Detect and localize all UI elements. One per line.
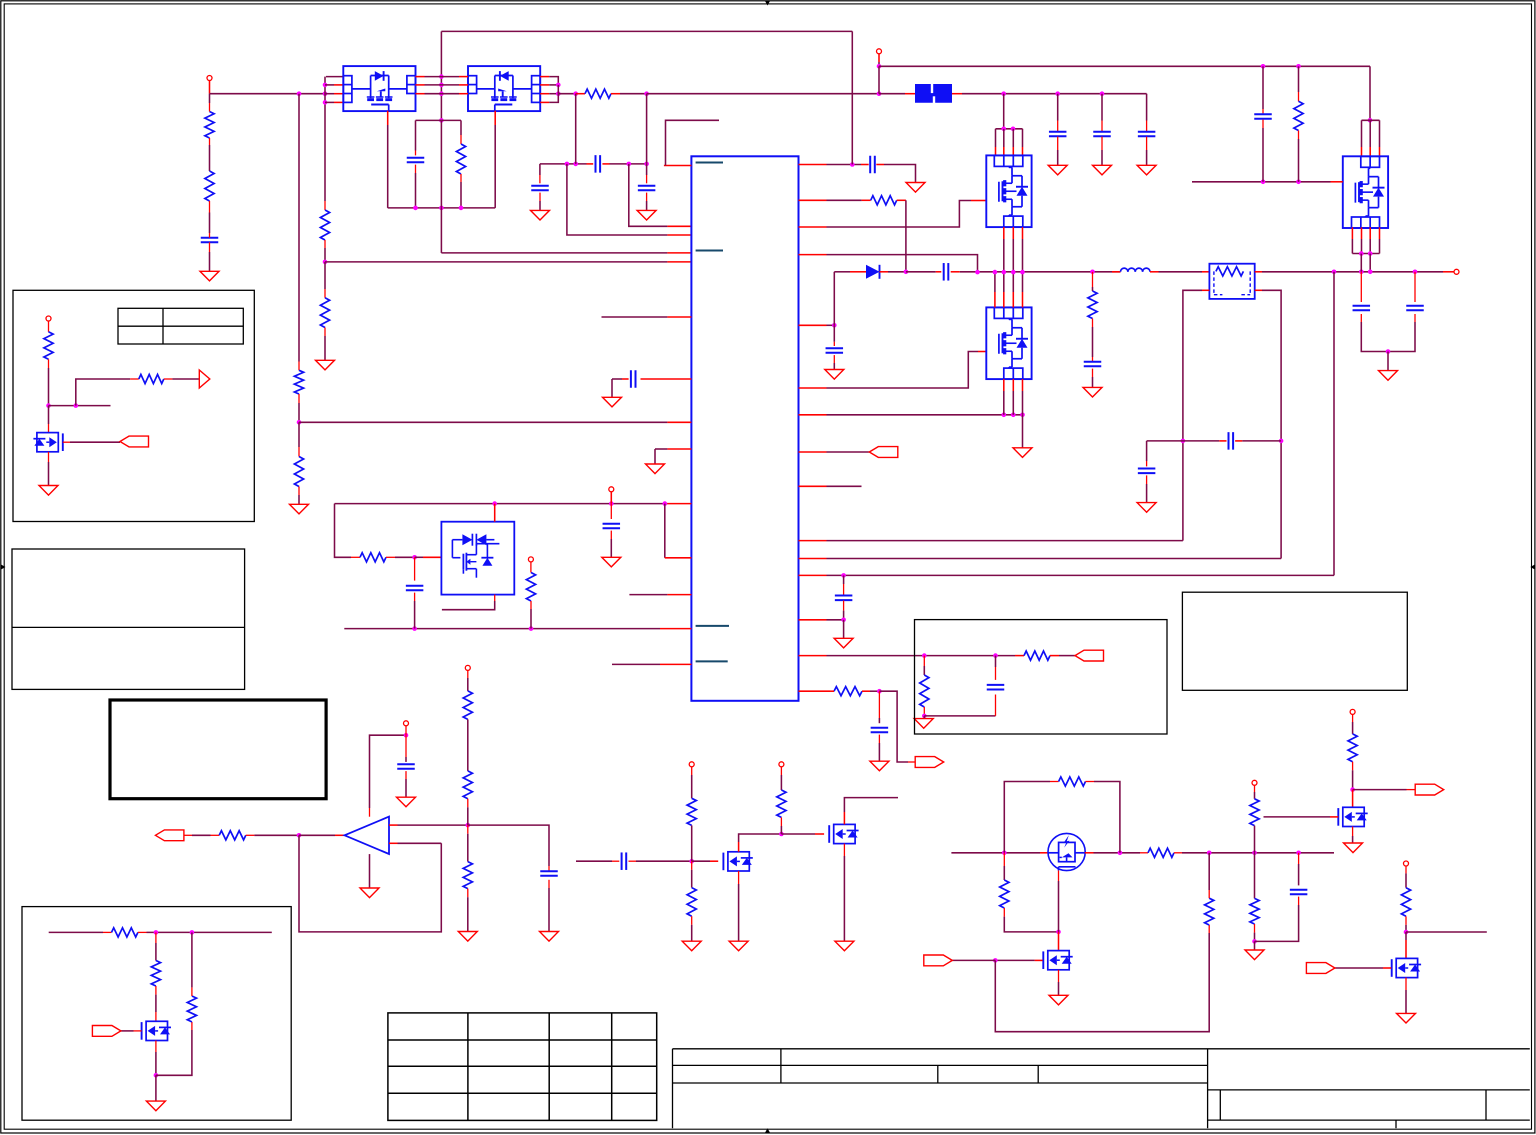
capacitor C10: [826, 348, 844, 353]
wire: [209, 81, 211, 104]
wire: [441, 208, 691, 253]
resistor R19: [463, 771, 472, 799]
junction: [190, 930, 195, 935]
wire: [415, 165, 417, 208]
wire long: [299, 421, 691, 423]
junction: [1404, 930, 1409, 935]
junction: [556, 91, 561, 96]
junction: [412, 555, 417, 560]
resistor R34: [112, 928, 138, 937]
junction: [297, 420, 302, 425]
wire pin: [1022, 379, 1024, 415]
diode D1: [866, 265, 880, 279]
wire: [298, 394, 300, 422]
wire: [1146, 94, 1148, 132]
ground: [200, 271, 219, 281]
wire pin: [1369, 120, 1371, 156]
wire: [879, 691, 915, 762]
capacitor C19: [1229, 432, 1234, 450]
wire stub: [1406, 931, 1487, 933]
note box: [1182, 592, 1407, 690]
wire: [951, 852, 1048, 854]
border tick left: [1, 565, 6, 570]
wire: [1235, 440, 1281, 442]
note box thick: [110, 700, 326, 799]
ground: [602, 557, 621, 567]
wire: [558, 93, 575, 95]
title block: [673, 1049, 1530, 1128]
wire: [1405, 866, 1407, 888]
capacitor C12: [987, 685, 1005, 690]
wire: [1174, 852, 1334, 854]
junction: [154, 930, 159, 935]
wire: [49, 405, 111, 407]
capacitor C24: [1290, 890, 1308, 895]
IC pin indicator: [696, 250, 723, 252]
transistor Q2 dual-FET package: [468, 66, 540, 111]
wire: [1333, 272, 1335, 576]
border tick bottom: [765, 1128, 770, 1133]
resistor R3: [294, 370, 303, 394]
ground: [397, 797, 416, 807]
wire: [691, 916, 693, 941]
transistor Q13: [33, 433, 62, 452]
capacitor C11: [835, 596, 853, 601]
wire pin: [641, 378, 692, 380]
wire: [1147, 440, 1227, 442]
wire: [995, 695, 997, 716]
wire: [1057, 94, 1059, 132]
wire feedback: [299, 835, 441, 932]
wire pin: [1022, 227, 1024, 272]
wire: [324, 262, 326, 298]
wire: [996, 128, 1023, 130]
wire: [210, 93, 326, 95]
wire long: [344, 628, 691, 630]
junction: [1359, 270, 1364, 275]
junction: [1279, 439, 1284, 444]
wire pin: [494, 504, 496, 522]
junction: [556, 83, 561, 88]
junction: [877, 64, 882, 69]
wire: [460, 120, 462, 144]
wire: [1146, 137, 1148, 166]
wire pin: [1012, 379, 1014, 415]
wire: [646, 193, 648, 211]
node VIN terminal circle: [877, 49, 882, 54]
wire pin: [799, 352, 987, 389]
junction: [904, 270, 909, 275]
resistor R4: [294, 457, 303, 487]
ground: [146, 1101, 165, 1111]
transistor Q4 package: [986, 155, 1031, 227]
node terminal circle: [46, 316, 51, 321]
transistor Q14: [142, 1021, 171, 1040]
wire: [1057, 137, 1059, 166]
IC pin indicator: [696, 660, 728, 662]
wire pin: [1351, 227, 1353, 253]
wire: [539, 164, 541, 183]
wire: [49, 931, 112, 933]
ground: [531, 210, 550, 220]
junction: [1368, 251, 1373, 256]
capacitor C4: [531, 186, 549, 191]
ground: [1397, 1013, 1416, 1023]
wire: [780, 767, 782, 790]
wire pin: [862, 199, 871, 201]
wire: [1405, 916, 1407, 932]
junction: [1296, 64, 1301, 69]
wire: [460, 174, 462, 208]
wire: [665, 504, 692, 558]
wire: [1208, 853, 1210, 898]
resistor R29: [1250, 898, 1259, 924]
note box two-row: [12, 549, 245, 689]
ground: [1083, 387, 1102, 397]
wire pin: [897, 199, 906, 201]
wire: [415, 120, 417, 155]
junction: [459, 206, 464, 211]
wire: [298, 422, 300, 456]
resistor R22: [687, 888, 696, 917]
junction: [1181, 439, 1186, 444]
ground: [646, 464, 665, 474]
node VIN1 terminal circle: [207, 76, 212, 81]
revision table: [388, 1013, 657, 1121]
resistor Rsense box: [1209, 264, 1254, 299]
junction: [1359, 251, 1364, 256]
resistor R20: [463, 862, 472, 889]
wire: [1004, 908, 1058, 932]
capacitor C20: [1138, 469, 1156, 474]
wire pin: [415, 556, 442, 558]
junction: [412, 626, 417, 631]
wire pin: [781, 833, 824, 835]
junction: [644, 162, 649, 167]
capacitor C16: [1254, 114, 1272, 119]
resistor R10: [526, 573, 535, 602]
ground: [1344, 843, 1363, 853]
wire: [405, 726, 407, 735]
wire pin: [692, 860, 719, 862]
port VOUT sense tag: [155, 830, 184, 841]
wire: [467, 825, 469, 862]
IC pin indicator: [696, 162, 723, 164]
wire: [1298, 66, 1300, 101]
wire loop: [995, 925, 1209, 1032]
wire: [1254, 785, 1256, 799]
junction: [1332, 270, 1337, 275]
wire: [191, 932, 193, 996]
wire: [1254, 826, 1256, 853]
wire: [1254, 941, 1256, 950]
junction: [663, 501, 668, 506]
transistor Q10: [1043, 951, 1072, 970]
wire pin: [655, 449, 691, 464]
wire: [923, 656, 925, 675]
wire: [843, 844, 845, 942]
junction: [877, 91, 882, 96]
junction: [297, 833, 302, 838]
wire: [610, 163, 647, 165]
ground: [39, 486, 58, 496]
capacitor C6: [631, 370, 636, 388]
wire: [1254, 924, 1256, 941]
wire: [1369, 66, 1371, 120]
wire pin: [799, 655, 1016, 657]
resistor R26: [1000, 880, 1009, 908]
wire: [906, 271, 941, 273]
resistor R28: [1250, 799, 1259, 826]
wire: [844, 798, 898, 825]
node terminal circle: [465, 665, 470, 670]
wire pin: [602, 163, 609, 165]
wire: [1262, 66, 1264, 113]
wire: [414, 593, 416, 629]
wire pin: [387, 111, 389, 208]
wire: [646, 164, 648, 183]
resistor R14: [834, 687, 862, 696]
wire pin: [1405, 932, 1407, 958]
ground: [1379, 371, 1398, 381]
junction: [1001, 127, 1006, 132]
ground: [825, 370, 844, 380]
resistor R5: [320, 210, 329, 240]
wire: [691, 767, 693, 799]
node terminal circle: [528, 557, 533, 562]
wire: [1298, 853, 1300, 886]
fuse F1: [915, 84, 952, 103]
junction: [1261, 64, 1266, 69]
wire: [878, 66, 880, 93]
transistor Q12: [1392, 958, 1421, 977]
ground: [914, 719, 933, 729]
junction: [877, 689, 882, 694]
resistor R36: [187, 996, 196, 1022]
junction: [1002, 851, 1007, 856]
transistor Q8: [829, 824, 858, 843]
wire pin: [951, 271, 1121, 273]
wire: [416, 119, 462, 121]
junction: [1252, 939, 1257, 944]
wire: [1352, 253, 1379, 255]
note table: [118, 308, 243, 344]
wire pin: [1335, 967, 1391, 969]
wire: [691, 861, 693, 887]
ground: [835, 941, 854, 951]
junction: [1056, 930, 1061, 935]
wire: [629, 164, 692, 226]
wire: [539, 193, 541, 211]
junction: [689, 859, 694, 864]
wire: [48, 406, 50, 433]
wire pin: [416, 84, 469, 86]
junction: [1020, 270, 1025, 275]
wire: [76, 379, 139, 406]
wire pin: [587, 163, 594, 165]
node terminal circle: [779, 762, 784, 767]
junction: [1011, 270, 1016, 275]
wire: [467, 889, 469, 932]
node terminal circle: [1404, 861, 1409, 866]
node terminal circle: [689, 762, 694, 767]
junction: [323, 100, 328, 105]
wire: [843, 601, 845, 620]
wire: [878, 54, 880, 67]
wire: [843, 620, 845, 639]
junction: [74, 403, 79, 408]
junction: [1350, 787, 1355, 792]
wire pin: [1379, 120, 1381, 156]
junction: [529, 626, 534, 631]
wire pin long: [799, 540, 1183, 542]
wire: [209, 233, 211, 271]
ground: [834, 638, 853, 648]
wire: [138, 931, 272, 933]
wire: [780, 817, 782, 834]
wire: [405, 735, 407, 762]
wire: [1255, 290, 1281, 558]
resistor R16: [1294, 101, 1303, 130]
junction: [1118, 851, 1123, 856]
ground: [1093, 165, 1112, 175]
junction: [1090, 270, 1095, 275]
op-amp U2: [345, 817, 390, 854]
wire pin long: [799, 574, 1335, 576]
wire pin: [664, 120, 719, 165]
wire pin: [1112, 271, 1121, 273]
junction: [46, 403, 51, 408]
wire: [1352, 827, 1354, 844]
op-amp U1 main controller IC body: [691, 156, 798, 701]
junction: [1011, 127, 1016, 132]
wire: [155, 1041, 157, 1076]
wire pin: [799, 255, 978, 273]
transistor Q1 dual-FET package: [343, 66, 415, 111]
note box: [22, 907, 291, 1121]
wire: [1405, 978, 1407, 1014]
wire: [567, 164, 692, 235]
wire: [209, 201, 211, 233]
wire: [646, 94, 648, 164]
wire pin: [799, 201, 987, 228]
wire: [246, 834, 299, 836]
wire: [467, 799, 469, 825]
resistor R12: [1024, 651, 1050, 660]
resistor R24: [1148, 848, 1174, 857]
node VOUT terminal circle: [1454, 269, 1459, 274]
junction: [1100, 91, 1105, 96]
ground: [637, 210, 656, 220]
junction: [841, 618, 846, 623]
port gate out: [1415, 784, 1444, 795]
capacitor C18: [1406, 306, 1424, 311]
junction: [1296, 851, 1301, 856]
wire pin: [799, 690, 831, 692]
junction: [1368, 270, 1373, 275]
resistor R30: [1348, 734, 1357, 762]
wire: [369, 854, 371, 888]
junction: [993, 653, 998, 658]
junction: [1261, 180, 1266, 185]
junction: [779, 832, 784, 837]
wire: [442, 595, 495, 610]
wire: [156, 1022, 192, 1075]
capacitor C8: [406, 586, 424, 591]
resistor R23: [777, 790, 786, 817]
wire: [951, 959, 996, 961]
junction: [1386, 349, 1391, 354]
capacitor C17: [1353, 306, 1371, 311]
wire: [1003, 94, 1005, 129]
wire: [1361, 254, 1370, 272]
wire pin: [1003, 272, 1005, 307]
resistor R32: [44, 332, 53, 360]
wire: [878, 735, 880, 762]
wire: [833, 355, 835, 369]
wire pin: [1361, 120, 1363, 156]
wire gate stub: [1192, 181, 1343, 183]
wire pin stub: [612, 663, 691, 665]
wire: [335, 504, 361, 558]
wire pin: [1022, 129, 1024, 156]
wire: [540, 163, 587, 165]
node terminal circle: [609, 487, 614, 492]
wire pin stub: [602, 316, 692, 318]
wire pin: [540, 93, 558, 95]
port gate in: [1306, 963, 1335, 974]
junction: [466, 823, 471, 828]
junction: [323, 260, 328, 265]
transistor Q6 package: [1343, 156, 1388, 228]
wire: [298, 487, 300, 505]
wire: [184, 834, 219, 836]
wire: [48, 359, 50, 405]
wire: [164, 378, 200, 380]
resistor R31: [1401, 888, 1410, 917]
wire: [1360, 272, 1362, 302]
wire pin: [325, 93, 343, 95]
wire pin: [494, 111, 496, 208]
note box: [13, 290, 254, 521]
wire: [414, 557, 416, 580]
junction: [1207, 851, 1212, 856]
resistor R8: [456, 144, 465, 174]
capacitor C14: [944, 263, 949, 281]
ground: [316, 360, 335, 370]
port FB: [1075, 650, 1104, 661]
wire: [155, 932, 157, 960]
wire: [1092, 319, 1094, 362]
wire pin: [879, 93, 915, 95]
wire pin: [1003, 379, 1005, 415]
junction: [439, 74, 444, 79]
junction: [323, 91, 328, 96]
junction: [1296, 180, 1301, 185]
wire pin: [876, 164, 884, 166]
junction: [404, 733, 409, 738]
resistor R11: [871, 196, 897, 205]
wire pin: [995, 129, 997, 156]
resistor R13: [920, 675, 929, 707]
wire: [63, 441, 120, 443]
wire pin: [389, 824, 468, 826]
capacitor bypass: [1049, 132, 1067, 137]
wire rail: [879, 65, 1370, 67]
wire: [1058, 970, 1060, 996]
wire: [298, 94, 300, 371]
resistor R7: [585, 89, 611, 98]
